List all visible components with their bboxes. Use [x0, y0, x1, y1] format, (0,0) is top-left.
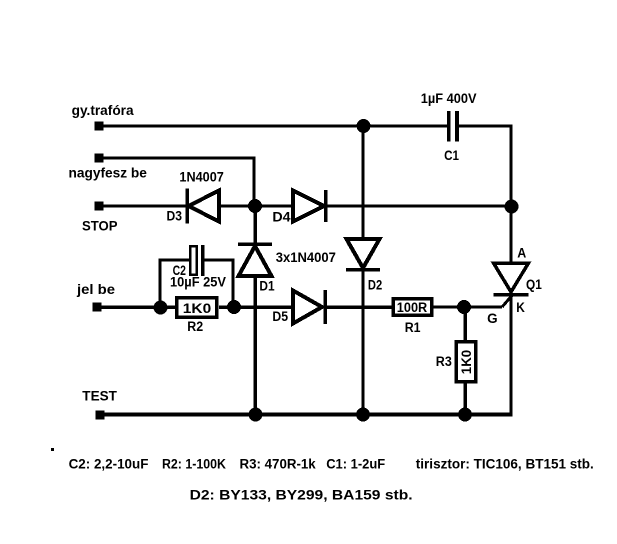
- node TEST / R3: [458, 408, 472, 422]
- diode D4: [293, 190, 326, 222]
- resistor R3: [456, 342, 476, 382]
- terminal STOP: [95, 202, 104, 211]
- capacitor C1: [447, 111, 459, 142]
- wire node to D2 anode: [362, 126, 365, 239]
- svg-text:1µF 400V: 1µF 400V: [421, 91, 477, 106]
- wire jel be to R2: [101, 305, 175, 309]
- wire node A to D1: [253, 206, 257, 244]
- svg-text:D4: D4: [272, 210, 291, 225]
- svg-text:K: K: [516, 300, 525, 315]
- node gy.trafora / D2 branch: [357, 119, 371, 133]
- node anode line / STOP wire: [505, 200, 519, 214]
- svg-text:1K0: 1K0: [459, 350, 474, 374]
- diode D2: [346, 239, 380, 270]
- svg-text:G: G: [487, 311, 498, 326]
- svg-text:D5: D5: [272, 309, 288, 324]
- wire STOP to D3: [103, 205, 186, 208]
- node jel be / C2 left: [154, 301, 168, 315]
- svg-text:C1: C1: [444, 148, 459, 163]
- svg-text:nagyfesz be: nagyfesz be: [69, 166, 148, 181]
- svg-text:R3: R3: [436, 354, 452, 369]
- wire R2 to D5: [219, 305, 293, 309]
- svg-text:1N4007: 1N4007: [179, 170, 223, 185]
- wire C2 loop left: [160, 260, 189, 307]
- svg-text:R2: R2: [187, 319, 203, 334]
- terminal nagyfesz be: [95, 154, 104, 163]
- svg-text:3x1N4007: 3x1N4007: [276, 250, 336, 265]
- wire C1 to anode vertical: [458, 126, 511, 263]
- svg-text:A: A: [517, 246, 526, 261]
- resistor R1: [393, 299, 431, 316]
- svg-text:D3: D3: [167, 209, 183, 224]
- svg-text:gy.trafóra: gy.trafóra: [72, 103, 134, 118]
- node R2 / C2 right: [227, 300, 241, 314]
- wire D5 to R1: [327, 305, 392, 309]
- wire D3 to D4: [220, 205, 293, 208]
- svg-text:STOP: STOP: [82, 219, 118, 234]
- capacitor C2: [190, 245, 204, 276]
- svg-text:R2: 1-100K: R2: 1-100K: [162, 457, 226, 472]
- svg-text:C2: 2,2-10uF: C2: 2,2-10uF: [69, 457, 149, 472]
- wire D4 to Q1 anode line: [327, 205, 511, 208]
- node A junction nagyfesz/D3/D4/D1: [248, 199, 262, 213]
- wire TEST line: [104, 413, 513, 417]
- wire D2 cathode to TEST line: [362, 270, 365, 415]
- node gate / R3: [457, 300, 471, 314]
- node TEST / D2: [356, 408, 370, 422]
- wire nagyfesz be to node A: [103, 158, 254, 206]
- svg-text:tirisztor: TIC106, BT151 stb.: tirisztor: TIC106, BT151 stb.: [416, 457, 594, 472]
- node TEST / D1: [249, 408, 263, 422]
- diode D5: [293, 290, 325, 324]
- svg-text:D2: D2: [368, 278, 382, 293]
- diode D1: [238, 244, 272, 276]
- svg-text:1K0: 1K0: [183, 301, 211, 316]
- wire R3 top: [463, 307, 467, 342]
- svg-text:jel be: jel be: [76, 282, 116, 297]
- svg-text:TEST: TEST: [82, 389, 117, 404]
- wire R3 bottom: [463, 382, 467, 415]
- label parts list line 1: [69, 457, 594, 472]
- wire C2 loop right: [204, 260, 233, 307]
- stray dot mark: [51, 448, 54, 451]
- wire gate diagonal: [502, 296, 512, 308]
- resistor R2: [177, 298, 217, 317]
- svg-text:100R: 100R: [397, 300, 428, 315]
- terminal gy.trafora: [95, 122, 104, 131]
- wire R1 to gate node: [433, 306, 502, 309]
- wire D1 to TEST line: [253, 276, 257, 415]
- wire Q1 cathode to TEST corner: [510, 295, 513, 416]
- thyristor Q1: [494, 263, 529, 295]
- svg-text:10µF 25V: 10µF 25V: [170, 275, 226, 290]
- svg-text:D2: BY133, BY299, BA159 stb.: D2: BY133, BY299, BA159 stb.: [190, 488, 413, 503]
- svg-text:R1: R1: [405, 320, 421, 335]
- wire gy.trafora line to C1: [103, 125, 447, 128]
- svg-text:C1: 1-2uF: C1: 1-2uF: [326, 457, 385, 472]
- svg-text:D1: D1: [259, 279, 275, 294]
- diode D3: [187, 189, 219, 224]
- svg-text:Q1: Q1: [526, 277, 542, 292]
- terminal TEST: [96, 411, 105, 420]
- svg-text:R3: 470R-1k: R3: 470R-1k: [240, 457, 317, 472]
- terminal jel be: [93, 303, 102, 312]
